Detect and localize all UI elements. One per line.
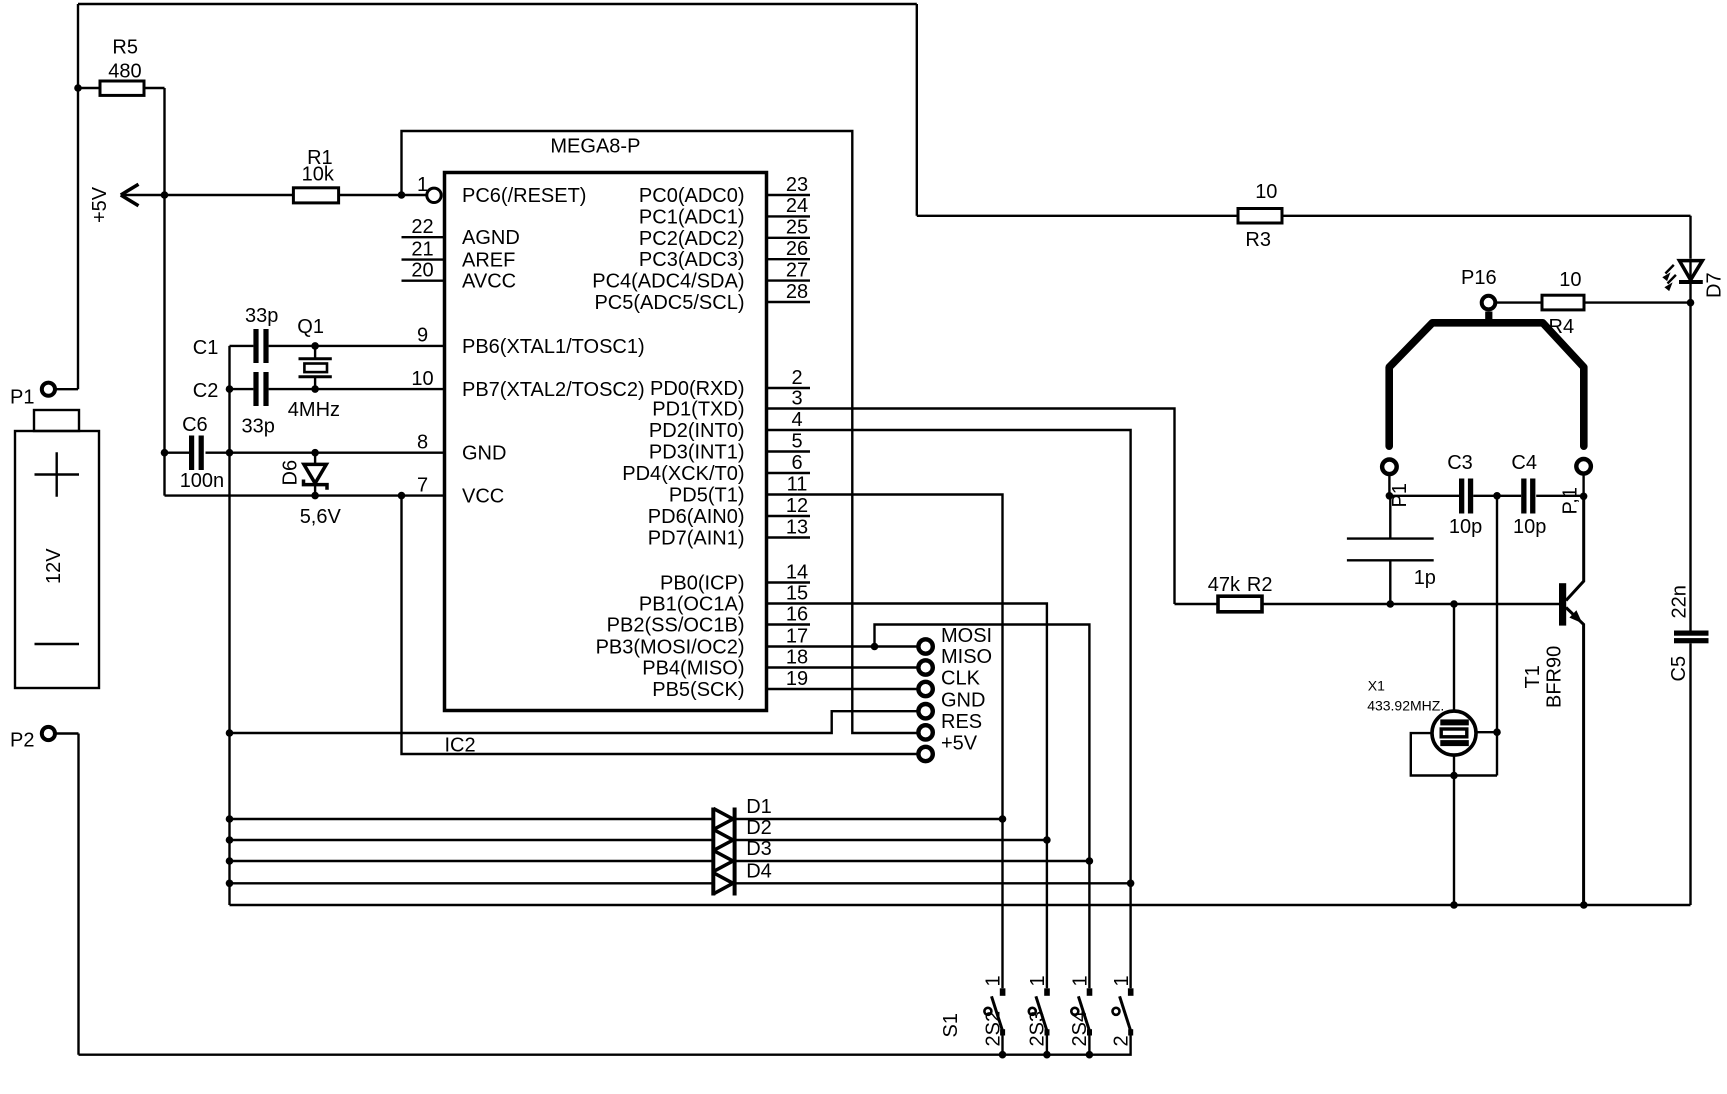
node junction 229.5,861 [226,857,234,865]
svg-text:D4: D4 [746,860,772,882]
terminal P2 [10,727,55,752]
pin 16 PB2(SS/OC1B) [607,603,810,636]
pin 26 PC3(ADC3) [639,238,810,271]
svg-text:BFR90: BFR90 [1544,646,1566,708]
wire PB1 OC1A to switch S3 [810,604,1047,989]
wire diode cathode rail [733,808,737,896]
svg-text:12: 12 [786,495,808,517]
capacitor 1p [1347,496,1436,604]
svg-text:23: 23 [786,174,808,196]
svg-text:P1: P1 [10,387,34,409]
svg-text:22: 22 [411,216,433,238]
svg-text:28: 28 [786,281,808,303]
node junction 229.5,819 [226,815,234,823]
svg-text:Q1: Q1 [297,316,324,338]
node junction 1583.8,905 [1580,901,1588,909]
pin 1 PC6(/RESET) [417,174,587,207]
resistor R5 [78,37,165,96]
svg-text:33p: 33p [245,305,278,327]
svg-text:26: 26 [786,238,808,260]
svg-text:PC1(ADC1): PC1(ADC1) [639,206,745,228]
svg-text:10p: 10p [1449,516,1482,538]
svg-text:PB7(XTAL2/TOSC2): PB7(XTAL2/TOSC2) [462,379,645,401]
svg-text:20: 20 [411,260,433,282]
svg-text:+5V: +5V [89,186,111,223]
wire top +12V rail [78,3,917,5]
node junction 1690.5,302.7 [1687,299,1695,307]
svg-text:PB6(XTAL1/TOSC1): PB6(XTAL1/TOSC1) [462,336,645,358]
svg-text:PD5(T1): PD5(T1) [669,485,745,507]
node junction 1389.4,495.8 [1386,492,1394,500]
svg-text:T1: T1 [1522,665,1544,688]
wire crystal can loop [1411,732,1497,775]
svg-text:PB2(SS/OC1B): PB2(SS/OC1B) [607,615,745,637]
battery 12V [15,410,99,688]
wire LED feed [1689,216,1691,631]
wire D1 line [230,818,1003,820]
pin 22 AGND [402,216,520,249]
svg-text:47k: 47k [1208,574,1241,596]
node junction 874.5,646.5 [871,643,879,651]
pin 27 PC4(ADC4/SDA) [592,259,810,292]
svg-text:S1: S1 [940,1013,962,1037]
pin 12 PD6(AIN0) [648,495,810,528]
node junction 1046.9,840 [1043,836,1051,844]
wire R5 to +5V node [163,88,165,195]
terminal P16 [1461,267,1497,309]
svg-text:PC5(ADC5/SCL): PC5(ADC5/SCL) [594,292,744,314]
svg-text:6: 6 [791,452,802,474]
svg-text:33p: 33p [242,416,275,438]
svg-text:PB5(SCK): PB5(SCK) [652,679,744,701]
node header pad GND [918,690,985,719]
node header pad CLK [918,668,980,697]
node junction 1130.6,883.3 [1127,880,1135,888]
svg-text:4: 4 [791,409,802,431]
svg-text:R5: R5 [112,37,138,59]
svg-text:18: 18 [786,646,808,668]
svg-text:PD6(AIN0): PD6(AIN0) [648,506,745,528]
node header pad RES [918,711,982,740]
svg-text:12V: 12V [43,548,65,584]
pin 11 PD5(T1) [669,473,810,506]
svg-text:C5: C5 [1668,656,1690,682]
resistor R3 10 [917,181,1691,251]
node junction 315.1,452.7 [311,449,319,457]
wire GND to header [230,711,917,733]
pin 20 AVCC [402,260,517,293]
node junction 1454,775.5 [1450,772,1458,780]
node junction 1002.5,819 [999,815,1007,823]
wire +5V vertical rail [163,195,165,496]
terminal P1 [10,383,55,409]
pin 6 PD4(XCK/T0) [622,452,810,485]
wire ground rail [230,904,1691,906]
node junction 1497,732.2 [1493,728,1501,736]
wire antenna left drop [1388,475,1390,496]
svg-text:AREF: AREF [462,250,515,272]
wire GND pin 8 [230,452,445,454]
svg-text:PB3(MOSI/OC2): PB3(MOSI/OC2) [596,637,745,659]
svg-text:+5V: +5V [941,733,978,755]
svg-text:RES: RES [941,711,982,733]
pin 21 AREF [402,238,516,271]
svg-text:GND: GND [462,443,506,465]
svg-text:16: 16 [786,603,808,625]
node junction 1002.5,1054.7 [999,1051,1007,1059]
capacitor C1 33p [193,305,445,363]
node junction 1390.3,604 [1387,600,1395,608]
pin 14 PB0(ICP) [660,561,810,594]
pin 3 PD1(TXD) [652,387,810,420]
transistor T1 BFR90 [1522,496,1584,905]
svg-text:17: 17 [786,625,808,647]
svg-text:480: 480 [108,61,141,83]
svg-text:MISO: MISO [941,646,992,668]
svg-text:R2: R2 [1247,574,1273,596]
svg-text:9: 9 [417,325,428,347]
node junction 78,88 [74,84,82,92]
svg-text:PD4(XCK/T0): PD4(XCK/T0) [622,463,744,485]
pin 18 PB4(MISO) [642,646,810,679]
wire D3 line [230,860,1090,862]
svg-text:1: 1 [1027,975,1049,986]
wire P1 lead [57,388,79,390]
diode D2 [713,817,771,851]
svg-text:10: 10 [1559,269,1581,291]
resistor R4 10 [1496,269,1691,338]
node antenna terminal P1 left [1382,460,1411,508]
svg-text:433.92MHZ.: 433.92MHZ. [1367,698,1444,714]
svg-text:P,1: P,1 [1560,487,1582,514]
svg-text:7: 7 [417,474,428,496]
svg-text:PB4(MISO): PB4(MISO) [642,658,744,680]
svg-text:D2: D2 [746,817,772,839]
svg-text:13: 13 [786,516,808,538]
node header pad MISO [918,646,992,675]
svg-text:1p: 1p [1414,567,1436,589]
wire PD1 TXD to R2 [810,409,1175,605]
svg-text:2: 2 [1110,1035,1132,1046]
wire PB3 MOSI branch to switch S4 [875,625,1090,989]
pin 15 PB1(OC1A) [639,582,810,615]
svg-text:22n: 22n [1669,585,1691,618]
svg-text:10: 10 [1255,181,1277,203]
node junction 401.5,195 [398,191,406,199]
wire MOSI to header [810,645,917,647]
svg-text:R3: R3 [1245,229,1271,251]
switch S1 pole 1 [982,975,1005,1054]
wire CLK to header [810,688,917,690]
svg-text:1: 1 [1111,975,1133,986]
svg-text:D1: D1 [746,796,772,818]
wire P2 lead [57,732,79,734]
node junction 401.5,495.6 [398,492,406,500]
capacitor C3 10p [1389,452,1521,538]
svg-text:PD1(TXD): PD1(TXD) [652,399,744,421]
svg-text:D7: D7 [1704,272,1726,298]
node junction 1046.9,1054.7 [1043,1051,1051,1059]
node junction 1497,495.8 [1493,492,1501,500]
svg-text:PD0(RXD): PD0(RXD) [650,378,744,400]
node junction 229.5,733 [226,729,234,737]
svg-text:P2: P2 [10,730,34,752]
pin 24 PC1(ADC1) [639,195,810,228]
svg-text:27: 27 [786,259,808,281]
svg-text:25: 25 [786,217,808,239]
pin 23 PC0(ADC0) [639,174,810,207]
pin 10 PB7(XTAL2/TOSC2) [411,368,644,401]
wire diode anode rail [711,808,715,896]
zener D6 5,6V [280,453,342,528]
resistor R2 47k [1175,574,1560,612]
svg-text:2: 2 [791,367,802,389]
svg-text:GND: GND [941,690,985,712]
pin 5 PD3(INT1) [649,430,810,463]
svg-text:PD7(AIN1): PD7(AIN1) [648,528,745,550]
node junction 315.1,495.6 [311,492,319,500]
svg-text:5,6V: 5,6V [300,506,342,528]
wire antenna right drop [1582,475,1584,497]
pin 19 PB5(SCK) [652,668,810,701]
switch S1 pole 4 [1110,975,1133,1046]
svg-text:2S3: 2S3 [1027,1011,1049,1047]
svg-text:19: 19 [786,668,808,690]
svg-text:D3: D3 [746,838,772,860]
node junction 164.5,452.7 [161,449,169,457]
pin 17 PB3(MOSI/OC2) [596,625,810,658]
node antenna terminal P,1 right [1560,459,1591,515]
node junction 229.5,452.7 [226,449,234,457]
wire D2 line [230,839,1047,841]
wire D4 line [230,882,1131,884]
wire PD5 T1 to switch S2 [810,495,1003,989]
node +5V arrow label [89,184,165,223]
node junction 1454,604 [1450,600,1458,608]
svg-text:15: 15 [786,582,808,604]
switch S1 pole 3 [1069,975,1092,1054]
svg-text:1: 1 [983,975,1005,986]
svg-text:21: 21 [411,238,433,260]
node junction 229.5,840 [226,836,234,844]
node header pad MOSI [918,625,992,654]
svg-text:MOSI: MOSI [941,625,992,647]
svg-text:1: 1 [417,174,428,196]
pin 13 PD7(AIN1) [648,516,810,549]
wire VCC line pin 7 [165,494,445,496]
svg-text:PB0(ICP): PB0(ICP) [660,573,744,595]
svg-text:10k: 10k [302,164,335,186]
node junction 1089.4,1054.7 [1086,1051,1094,1059]
wire PD2 INT0 to switch S5 [810,430,1131,988]
svg-text:24: 24 [786,195,808,217]
node header pad +5V [918,733,977,762]
resistor R1 [165,147,427,203]
LED D7 [1662,261,1725,298]
wire RESET frame around IC [402,131,917,733]
svg-text:11: 11 [787,473,808,495]
capacitor C4 10p [1511,452,1583,538]
svg-text:5: 5 [791,430,802,452]
svg-text:10p: 10p [1513,516,1546,538]
svg-text:8: 8 [417,432,428,454]
antenna loop [1389,312,1584,447]
svg-text:P16: P16 [1461,267,1497,289]
capacitor C6 100n [165,414,230,492]
node junction 1583.6,496.3 [1580,493,1588,501]
svg-text:IC2: IC2 [445,735,476,757]
svg-text:C6: C6 [182,414,208,436]
op-amp U1 IC2 MEGA8-P body [445,136,767,757]
wire MISO to header [810,666,917,668]
svg-text:1: 1 [1070,975,1092,986]
wire P2 down to switch bus [77,734,79,1055]
wire VCC down to +5V header [402,496,917,754]
node junction 229.5,389.1 [226,385,234,393]
svg-text:MEGA8-P: MEGA8-P [550,136,640,158]
pin 1 circle PC6/RESET [427,188,441,202]
wire +12V down right side [916,4,918,216]
svg-text:C3: C3 [1447,452,1473,474]
node junction 1454,905 [1450,901,1458,909]
svg-text:PD3(INT1): PD3(INT1) [649,442,745,464]
svg-text:PC4(ADC4/SDA): PC4(ADC4/SDA) [592,271,744,293]
capacitor C2 33p [193,372,445,438]
svg-text:X1: X1 [1368,678,1385,694]
crystal X1 433.92MHZ [1367,604,1476,905]
svg-text:PD2(INT0): PD2(INT0) [649,420,745,442]
diode D4 [713,860,771,894]
crystal Q1 4MHz [288,316,340,421]
wire switch common bus to P2 [79,1035,1131,1055]
pin 25 PC2(ADC2) [639,217,810,250]
wire GND vertical rail (C1/C2/C6 to ground) [228,346,230,905]
svg-text:PC2(ADC2): PC2(ADC2) [639,228,745,250]
node junction 164.5,195 [161,191,169,199]
svg-text:VCC: VCC [462,486,504,508]
svg-text:AGND: AGND [462,227,520,249]
svg-text:PB1(OC1A): PB1(OC1A) [639,594,745,616]
pin 7 VCC [417,474,504,507]
wire left vertical to P1 [77,4,79,389]
svg-text:PC3(ADC3): PC3(ADC3) [639,249,745,271]
pin 9 PB6(XTAL1/TOSC1) [417,325,645,358]
svg-text:2S2: 2S2 [982,1011,1004,1047]
diode D1 [713,796,771,830]
svg-text:2S4: 2S4 [1069,1011,1091,1047]
switch S1 pole 2 [1027,975,1050,1054]
wire C3C4 mid to crystal can [1496,496,1498,776]
node junction 315.1,345.9 [311,342,319,350]
svg-text:100n: 100n [180,470,225,492]
capacitor C5 22n [1668,585,1709,681]
svg-text:AVCC: AVCC [462,271,516,293]
svg-text:C2: C2 [193,380,219,402]
node junction 315.1,389.1 [311,385,319,393]
pin 2 PD0(RXD) [650,367,810,400]
svg-text:PC6(/RESET): PC6(/RESET) [462,185,586,207]
svg-text:D6: D6 [280,460,302,486]
svg-text:C4: C4 [1511,452,1537,474]
svg-text:3: 3 [791,387,802,409]
svg-text:10: 10 [411,368,433,390]
node junction 229.5,883.3 [226,880,234,888]
pin 8 GND [417,432,507,465]
diode D3 [713,838,771,872]
pin 28 PC5(ADC5/SCL) [594,281,810,314]
svg-text:14: 14 [786,561,808,583]
svg-text:C1: C1 [193,337,219,359]
svg-text:4MHz: 4MHz [288,399,340,421]
svg-text:PC0(ADC0): PC0(ADC0) [639,185,745,207]
node junction 1089.4,861 [1086,857,1094,865]
wire C5 to ground rail [1689,643,1691,905]
svg-text:CLK: CLK [941,668,981,690]
pin 4 PD2(INT0) [649,409,810,442]
